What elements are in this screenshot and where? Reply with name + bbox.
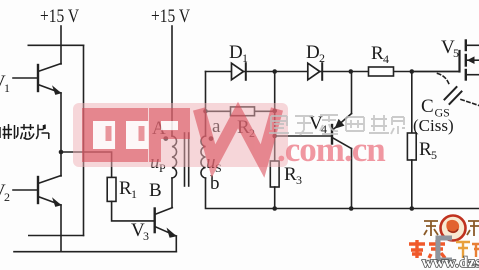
wire secondary bottom to rail <box>206 178 479 209</box>
label D1 <box>229 42 248 65</box>
svg-text:1: 1 <box>131 187 137 201</box>
svg-text:1: 1 <box>4 81 10 95</box>
label uP <box>150 152 166 175</box>
wire mid branch to R1 <box>61 152 112 177</box>
node V4 base branch junction <box>272 134 277 139</box>
wire R3 bottom <box>274 187 276 209</box>
watermark EEPW halo <box>73 103 288 167</box>
wire R2 branch <box>206 110 275 112</box>
svg-text:D: D <box>306 42 320 63</box>
capacitor CGS plates <box>445 87 457 100</box>
resistor R2 <box>231 107 255 116</box>
watermark EEPW letters <box>82 108 277 162</box>
wire V4 base branch <box>275 135 332 137</box>
secondary phase dot a <box>209 136 214 141</box>
diode D1 <box>232 63 246 80</box>
mosfet V5 <box>460 41 479 80</box>
node junction at driver mid-point <box>59 150 64 155</box>
label D2 <box>306 42 325 65</box>
capacitor CGS dashed leads <box>438 74 479 106</box>
svg-text:+15 V: +15 V <box>151 6 190 27</box>
svg-text:.com.cn: .com.cn <box>277 130 385 169</box>
svg-text:+15 V: +15 V <box>40 6 79 27</box>
svg-text:5: 5 <box>431 148 437 162</box>
wire center vertical D1D2 to R3 <box>274 72 276 162</box>
svg-text:3: 3 <box>143 229 149 243</box>
wire V1 emitter rail down <box>60 93 62 176</box>
wire R1 bottom to V3 base <box>112 201 155 221</box>
svg-text:1: 1 <box>242 51 248 65</box>
diode D2 <box>308 63 322 80</box>
transistor V2 <box>13 176 62 207</box>
resistor R3 <box>270 161 279 187</box>
wire top bus <box>206 71 460 73</box>
label V3 <box>131 220 149 243</box>
wire +15V middle vertical <box>171 26 173 136</box>
svg-text:4: 4 <box>383 52 389 66</box>
wire left frame bottom horizontal <box>29 235 84 237</box>
node R4 right junction <box>410 69 415 74</box>
wire R5 top <box>411 72 413 134</box>
label R1 <box>119 178 137 201</box>
svg-text:3: 3 <box>296 173 302 187</box>
svg-text:5: 5 <box>453 46 459 60</box>
label R5 <box>419 139 437 162</box>
wire top-left horizontal stub <box>28 44 83 46</box>
resistor R5 <box>407 133 416 160</box>
transistor V4 <box>332 72 352 209</box>
label V4 <box>309 113 327 136</box>
svg-text:2: 2 <box>4 190 10 204</box>
node V4 collector bottom junction <box>349 206 354 211</box>
wire secondary top vertical <box>205 72 207 137</box>
wire V2 emitter down <box>60 205 62 252</box>
transistor V3 <box>155 208 177 252</box>
resistor R1 <box>107 177 116 201</box>
node R5 bottom junction <box>410 206 415 211</box>
node R2 right junction <box>272 109 277 114</box>
node D1-D2 junction <box>272 69 277 74</box>
wire bottom-left rail <box>14 251 176 253</box>
label R2 <box>237 117 255 140</box>
wire V3 collector to primary bottom <box>171 178 173 208</box>
transformer core <box>184 133 186 186</box>
label V1 <box>0 72 10 95</box>
svg-text:D: D <box>229 42 243 63</box>
label CGS <box>421 96 450 120</box>
wire R5 bottom <box>411 160 413 209</box>
node R4 left junction <box>349 69 354 74</box>
watermark bottom right logo <box>409 216 479 270</box>
svg-text:C: C <box>421 96 434 117</box>
svg-text:B: B <box>149 180 162 201</box>
watermark grey chinese text <box>269 115 405 135</box>
label uS <box>206 152 222 175</box>
primary phase dot A <box>163 136 168 141</box>
transistor V1 <box>13 64 62 95</box>
svg-text:(Ciss): (Ciss) <box>413 116 454 135</box>
transformer primary winding uP <box>172 136 177 178</box>
wire +15V left vertical <box>60 26 62 64</box>
wire gate lead <box>412 71 460 73</box>
svg-text:2: 2 <box>319 51 325 65</box>
node R3 bottom junction <box>272 206 277 211</box>
transformer secondary winding uS <box>201 136 206 178</box>
label R3 <box>284 164 302 187</box>
resistor R4 <box>369 67 394 76</box>
label control chip chinese <box>0 124 49 139</box>
wire left frame right vertical <box>83 45 85 235</box>
label V2 <box>0 181 10 204</box>
svg-text:www.dzs: www.dzs <box>422 255 479 270</box>
label V5 <box>441 37 459 60</box>
label R4 <box>371 43 389 66</box>
node a junction to R2 <box>203 109 208 114</box>
